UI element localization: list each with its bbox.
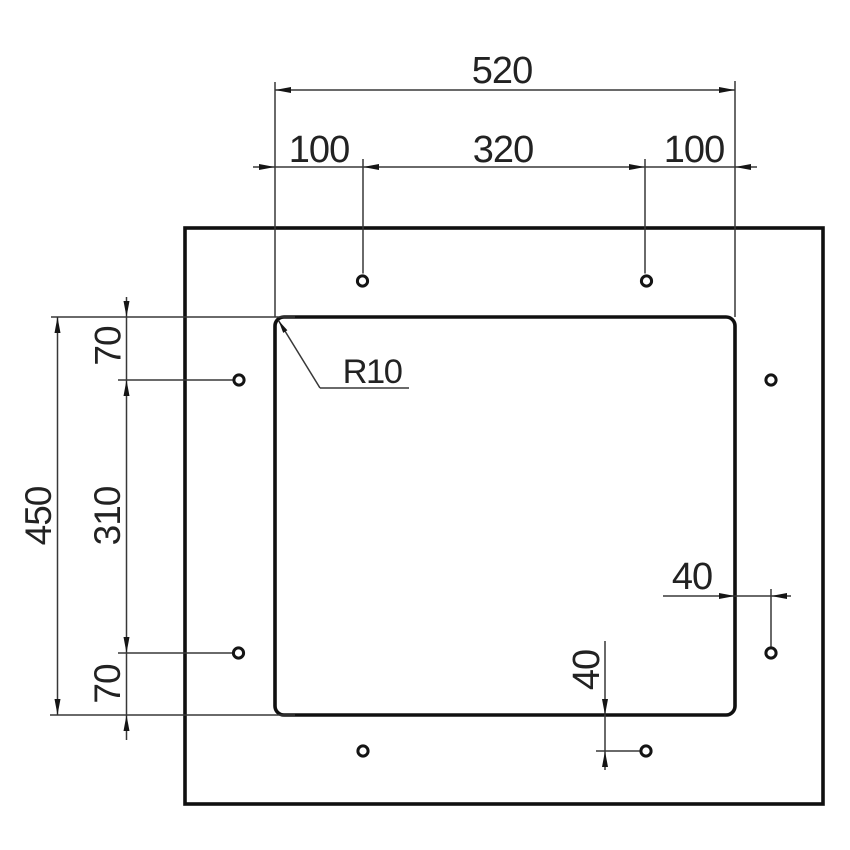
arrowhead chain at x645 pointing right bbox=[629, 164, 645, 170]
arrowhead 450 bottom bbox=[55, 699, 61, 715]
center line right hole column bbox=[770, 589, 772, 647]
chain dimension line 70/310/70 vertical bbox=[126, 297, 128, 740]
hole right-upper bbox=[766, 375, 776, 385]
arrowhead vchain at y380 pointing up bbox=[124, 380, 130, 396]
svg-text:450: 450 bbox=[18, 486, 59, 545]
svg-text:310: 310 bbox=[87, 486, 128, 545]
dimension line 40 bottom bbox=[604, 641, 606, 770]
arrowhead 40b at y715 pointing down bbox=[602, 699, 608, 715]
leader shelf R10 bbox=[320, 387, 409, 389]
arrowhead R10 leader bbox=[279, 321, 288, 333]
extension line hole column x363 bbox=[362, 159, 364, 274]
extension line hole row y653 bbox=[118, 652, 232, 654]
hole right-lower bbox=[766, 648, 776, 658]
svg-text:70: 70 bbox=[87, 664, 128, 704]
extension line hole column x645 bbox=[644, 159, 646, 274]
svg-text:70: 70 bbox=[88, 326, 129, 366]
outer panel rectangle bbox=[185, 228, 823, 804]
extension line top of cutout y=317 bbox=[51, 316, 295, 318]
arrowhead 40r at x735 pointing right bbox=[719, 593, 735, 599]
chain dimension line 100/320/100 bbox=[253, 166, 757, 168]
arrowhead vchain at y653 pointing down bbox=[124, 637, 130, 653]
svg-text:100: 100 bbox=[664, 129, 724, 171]
svg-text:100: 100 bbox=[289, 129, 349, 171]
dimension line 520 bbox=[275, 89, 735, 91]
cutout rounded rectangle R10 bbox=[275, 317, 735, 715]
arrowhead 520 left bbox=[275, 87, 291, 93]
dimension line 450 bbox=[57, 317, 59, 715]
extension line bottom of cutout y=715 bbox=[50, 714, 295, 716]
extension line hole row y380 bbox=[118, 379, 233, 381]
svg-text:40: 40 bbox=[566, 650, 608, 690]
arrowhead 40b at y751 pointing up bbox=[602, 751, 608, 767]
arrowhead 450 top bbox=[55, 317, 61, 333]
extension line left of 520 dim at x=275 bbox=[274, 82, 276, 317]
hole left-lower bbox=[233, 648, 243, 658]
svg-text:40: 40 bbox=[672, 556, 712, 598]
arrowhead chain at x363 pointing left bbox=[363, 164, 379, 170]
arrowhead chain at x735 pointing left bbox=[735, 164, 751, 170]
dimension line 40 right bbox=[663, 595, 791, 597]
hole bottom-right bbox=[641, 746, 651, 756]
leader line R10 diagonal bbox=[279, 321, 321, 389]
svg-text:R10: R10 bbox=[343, 353, 402, 391]
arrowhead 40r at x771 pointing left bbox=[771, 593, 787, 599]
hole top-right bbox=[641, 276, 651, 286]
extension line right of 520 dim at x=735 bbox=[734, 81, 736, 317]
hole top-left bbox=[357, 276, 367, 286]
leader line bottom hole bbox=[596, 750, 640, 752]
arrowhead vchain at y317 pointing down bbox=[124, 301, 130, 317]
arrowhead 520 right bbox=[719, 87, 735, 93]
hole left-upper bbox=[234, 375, 244, 385]
arrowhead chain at x275 pointing right bbox=[259, 164, 275, 170]
svg-text:320: 320 bbox=[473, 129, 533, 171]
arrowhead vchain at y715 pointing up bbox=[124, 715, 130, 731]
svg-text:520: 520 bbox=[472, 50, 532, 92]
hole bottom-left bbox=[358, 746, 368, 756]
